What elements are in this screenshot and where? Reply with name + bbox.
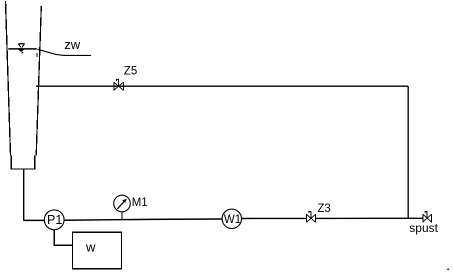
svg-text:Z3: Z3 [317, 203, 330, 215]
svg-text:w: w [85, 240, 96, 255]
box w [72, 232, 121, 268]
meter W1 [222, 209, 241, 228]
tank right wall [36, 6, 41, 156]
wire P1 to W1 [64, 219, 222, 220]
svg-text:M1: M1 [132, 197, 148, 209]
level symbol open triangle [18, 43, 24, 45]
leader line to zw [38, 49, 92, 55]
wire outlet to P1 [24, 219, 45, 221]
water level line [8, 48, 37, 50]
M1 stem wire [121, 212, 123, 220]
wire P1 to box w [54, 230, 72, 246]
short dash below level near wall [36, 53, 38, 57]
svg-text:Z5: Z5 [124, 66, 137, 78]
svg-text:P1: P1 [47, 213, 62, 227]
wire W1 to Z3 [242, 217, 307, 219]
pump P1 [44, 210, 64, 230]
tank left wall [6, 1, 11, 156]
top pipe wire [36, 85, 408, 87]
svg-text:zw: zw [64, 37, 81, 52]
svg-text:W1: W1 [224, 214, 241, 226]
right pipe wire down [407, 86, 409, 218]
valve spust [423, 211, 432, 222]
wire Z3 to spust [316, 217, 423, 219]
tank outlet pipe wire [23, 169, 25, 221]
valve Z5 [114, 79, 123, 90]
valve Z3 [307, 211, 316, 222]
gauge M1 [114, 195, 131, 212]
level symbol filled triangle [18, 49, 25, 52]
stray dot bottom right [447, 269, 449, 271]
level symbol tick [22, 52, 24, 54]
M1 needle [118, 201, 125, 209]
svg-text:spust: spust [409, 221, 438, 235]
tank bottom hopper [11, 156, 35, 170]
